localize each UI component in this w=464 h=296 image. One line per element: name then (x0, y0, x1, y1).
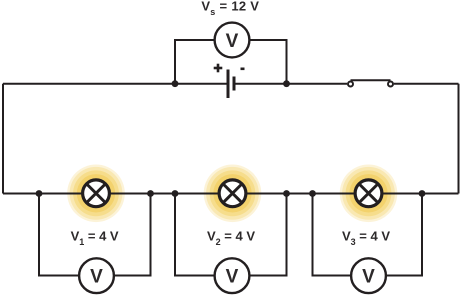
svg-text:V: V (226, 267, 239, 288)
svg-text:V: V (90, 267, 103, 288)
svg-text:V: V (362, 267, 375, 288)
svg-text:V: V (226, 31, 239, 52)
